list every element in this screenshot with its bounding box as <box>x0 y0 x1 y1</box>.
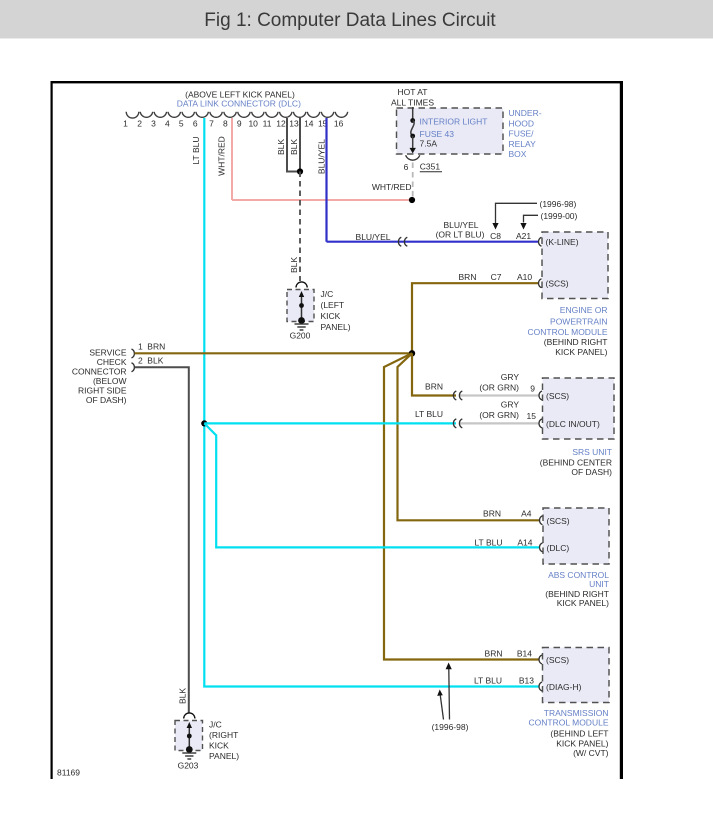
J/C G203 internal arrow and dots <box>188 728 190 750</box>
svg-text:HOOD: HOOD <box>509 118 535 128</box>
svg-text:LT BLU: LT BLU <box>191 136 201 164</box>
svg-text:A4: A4 <box>521 509 532 519</box>
svg-text:C8: C8 <box>490 231 501 241</box>
label ENGINE OR POWERTRAIN CONTROL MODULE <box>528 305 608 357</box>
svg-text:WHT/RED: WHT/RED <box>372 182 412 192</box>
label J/C (RIGHT KICK PANEL) <box>209 720 239 762</box>
service check connector pin 2 arc <box>132 363 135 372</box>
ground G203 symbol <box>182 752 196 754</box>
svg-text:GRY: GRY <box>501 372 520 382</box>
junction node WHT/RED / C351 <box>409 197 415 203</box>
svg-text:ENGINE OR: ENGINE OR <box>560 305 608 315</box>
header bar <box>0 0 713 39</box>
pin arc SRS SCS <box>539 391 542 400</box>
wire BRN from ECM (SCS) <box>412 283 539 352</box>
svg-text:4: 4 <box>165 118 170 128</box>
J/C G200 internal arrow and dots <box>301 297 303 321</box>
svg-text:J/C: J/C <box>209 720 222 730</box>
svg-text:(LEFT: (LEFT <box>321 300 345 310</box>
label UNDER-HOOD FUSE/RELAY BOX <box>509 108 542 159</box>
svg-text:LT BLU: LT BLU <box>415 409 443 419</box>
svg-text:C351: C351 <box>420 162 441 172</box>
svg-text:(1999-00): (1999-00) <box>541 211 578 221</box>
svg-text:(SCS): (SCS) <box>546 279 569 289</box>
svg-text:DATA LINK CONNECTOR (DLC): DATA LINK CONNECTOR (DLC) <box>177 99 301 109</box>
svg-text:5: 5 <box>179 118 184 128</box>
svg-text:HOT AT: HOT AT <box>398 87 428 97</box>
svg-text:ALL TIMES: ALL TIMES <box>391 98 434 108</box>
junction node BLK pins 12+13 <box>297 168 303 174</box>
inline connector BRN/GRY <box>453 391 462 400</box>
svg-text:B13: B13 <box>519 675 534 685</box>
pin arc SCS <box>539 279 542 288</box>
svg-text:KICK: KICK <box>209 741 229 751</box>
svg-text:BLK: BLK <box>276 139 286 155</box>
svg-text:CONTROL MODULE: CONTROL MODULE <box>528 327 608 337</box>
svg-text:(SCS): (SCS) <box>546 655 569 665</box>
svg-text:G200: G200 <box>290 331 311 341</box>
svg-text:INTERIOR LIGHT: INTERIOR LIGHT <box>420 116 488 126</box>
svg-text:BRN: BRN <box>147 341 165 351</box>
inline connector LT BLU/GRY <box>453 419 462 428</box>
wire WHT/RED vertical from DLC pin 9 <box>231 118 233 200</box>
ABS control unit box (dashed) <box>543 508 609 564</box>
wire GRY to SRS (DLC IN/OUT) <box>459 422 539 424</box>
svg-text:7: 7 <box>209 118 214 128</box>
wire WHT/RED horizontal to C351 junction <box>232 199 412 201</box>
pin arc ABS DLC <box>540 543 543 552</box>
svg-text:BLK: BLK <box>177 688 187 704</box>
svg-text:BLU/YEL: BLU/YEL <box>316 139 326 174</box>
svg-text:(BEHIND CENTER: (BEHIND CENTER <box>540 457 612 467</box>
svg-text:2: 2 <box>138 355 143 365</box>
svg-text:15: 15 <box>527 411 537 421</box>
svg-text:SERVICE: SERVICE <box>89 347 126 357</box>
label ABS CONTROL UNIT (BEHIND RIGHT KICK PANEL) <box>545 570 609 608</box>
svg-text:9: 9 <box>530 384 535 394</box>
svg-text:6: 6 <box>404 162 409 172</box>
J/C G200 box (dashed) <box>287 290 314 322</box>
wire LT BLU horizontal to TCM (DIAG-H) <box>203 685 539 687</box>
label SRS UNIT (BEHIND CENTER OF DASH) <box>540 447 612 477</box>
svg-text:13: 13 <box>289 118 299 128</box>
svg-text:BRN: BRN <box>483 509 501 519</box>
svg-text:SRS UNIT: SRS UNIT <box>572 447 612 457</box>
svg-text:OF DASH): OF DASH) <box>86 395 127 405</box>
svg-text:BLK: BLK <box>289 257 299 273</box>
pin arc K-LINE <box>539 237 542 246</box>
svg-text:2: 2 <box>137 118 142 128</box>
svg-text:(1996-98): (1996-98) <box>432 722 469 732</box>
svg-text:RELAY: RELAY <box>509 139 537 149</box>
svg-text:KICK PANEL): KICK PANEL) <box>556 738 608 748</box>
svg-text:(RIGHT: (RIGHT <box>209 730 238 740</box>
svg-text:LT BLU: LT BLU <box>474 537 502 547</box>
wire LT BLU vertical from DLC pin 7 <box>203 118 205 687</box>
svg-text:(SCS): (SCS) <box>546 391 569 401</box>
svg-text:14: 14 <box>304 118 314 128</box>
pin arc TCM DIAG-H <box>539 682 542 691</box>
wire dashed gray from C351 to junction <box>412 163 414 200</box>
label J/C (LEFT KICK PANEL) <box>321 289 351 332</box>
svg-text:G203: G203 <box>178 761 199 771</box>
wire BRN splice down to SRS (SCS) row <box>412 353 456 395</box>
J/C G203 terminal arc <box>184 713 195 719</box>
svg-text:9: 9 <box>237 118 242 128</box>
diagram frame right border <box>620 81 623 779</box>
svg-text:BRN: BRN <box>459 272 477 282</box>
svg-text:(W/ CVT): (W/ CVT) <box>573 748 609 758</box>
svg-text:Fig 1: Computer Data Lines Cir: Fig 1: Computer Data Lines Circuit <box>204 10 496 31</box>
J/C G203 box (dashed) <box>175 721 203 751</box>
svg-text:10: 10 <box>248 118 258 128</box>
svg-text:LT BLU: LT BLU <box>474 675 502 685</box>
svg-text:16: 16 <box>334 118 344 128</box>
svg-text:(1996-98): (1996-98) <box>540 199 577 209</box>
connector DLC terminal arcs (16 scallops) <box>126 112 348 118</box>
svg-text:1: 1 <box>138 341 143 351</box>
pin arc SRS DLC IN/OUT <box>539 419 542 428</box>
svg-text:A10: A10 <box>517 272 532 282</box>
svg-text:A14: A14 <box>517 537 532 547</box>
svg-text:FUSE 43: FUSE 43 <box>420 129 455 139</box>
wire LT BLU diagonal branch to ABS <box>204 423 539 547</box>
svg-text:C7: C7 <box>491 272 502 282</box>
diagram frame left border <box>51 81 53 779</box>
transmission control module box (dashed) <box>543 648 610 703</box>
wire BLU/YEL vertical from DLC pin 15 <box>325 118 327 242</box>
svg-text:A21: A21 <box>516 231 531 241</box>
wire into fuse from top <box>412 107 414 121</box>
wire LT BLU tee to SRS (DLC IN/OUT) <box>204 422 456 424</box>
pin arc ABS SCS <box>540 516 543 525</box>
svg-text:PANEL): PANEL) <box>321 322 351 332</box>
svg-text:KICK: KICK <box>321 311 341 321</box>
callout (1999-00) with arrow to A21 <box>524 215 539 222</box>
svg-text:(OR GRN): (OR GRN) <box>479 410 519 420</box>
callout (1996-98) with arrow to C8 <box>496 203 538 223</box>
svg-text:FUSE/: FUSE/ <box>509 129 535 139</box>
svg-text:(BEHIND RIGHT: (BEHIND RIGHT <box>544 337 608 347</box>
svg-text:(K-LINE): (K-LINE) <box>546 237 579 247</box>
svg-text:KICK PANEL): KICK PANEL) <box>557 598 609 608</box>
wire BLK from DLC pin 12 <box>287 118 300 172</box>
wire BRN splice diagonal to TCM vertical <box>384 353 539 659</box>
svg-text:BRN: BRN <box>425 382 443 392</box>
diagram frame top border <box>51 81 623 83</box>
svg-text:BLU/YEL: BLU/YEL <box>356 232 391 242</box>
svg-text:POWERTRAIN: POWERTRAIN <box>550 317 607 327</box>
svg-text:6: 6 <box>193 118 198 128</box>
svg-text:3: 3 <box>151 118 156 128</box>
svg-text:CONNECTOR: CONNECTOR <box>72 367 127 377</box>
underhood fuse/relay box (dashed) <box>397 108 504 154</box>
pin arc TCM SCS <box>539 655 542 664</box>
ECM module box (dashed) <box>542 232 608 299</box>
svg-text:7.5A: 7.5A <box>420 139 438 149</box>
wire BRN splice diagonal to ABS vertical <box>398 353 540 520</box>
svg-text:12: 12 <box>276 118 286 128</box>
svg-text:OF DASH): OF DASH) <box>571 467 612 477</box>
inline connector on BLU/YEL wire <box>398 237 407 246</box>
svg-text:J/C: J/C <box>321 289 334 299</box>
svg-text:UNIT: UNIT <box>589 579 609 589</box>
label TRANSMISSION CONTROL MODULE (BEHIND LEFT KICK PANEL) (W/ CVT) <box>529 708 609 758</box>
svg-text:B14: B14 <box>517 649 532 659</box>
SRS unit box (dashed) <box>543 378 615 439</box>
svg-text:(BELOW: (BELOW <box>93 376 127 386</box>
svg-text:WHT/RED: WHT/RED <box>217 136 227 176</box>
svg-text:CHECK: CHECK <box>97 357 127 367</box>
wire BLK dashed down to J/C G200 <box>299 172 301 282</box>
svg-text:BLK: BLK <box>289 139 299 155</box>
svg-text:TRANSMISSION: TRANSMISSION <box>544 708 609 718</box>
svg-text:(OR GRN): (OR GRN) <box>479 383 519 393</box>
svg-text:81169: 81169 <box>57 768 80 778</box>
J/C G200 terminal arc <box>296 282 307 288</box>
wire GRY to SRS (SCS) <box>459 394 539 396</box>
connector C351 terminal arc <box>406 155 420 160</box>
ground G200 symbol <box>295 323 309 325</box>
svg-text:BLK: BLK <box>147 355 163 365</box>
wire BRN service check to junction <box>135 352 413 354</box>
svg-text:KICK PANEL): KICK PANEL) <box>555 347 607 357</box>
svg-text:11: 11 <box>263 118 272 128</box>
svg-text:BRN: BRN <box>485 649 503 659</box>
svg-text:(DIAG-H): (DIAG-H) <box>546 682 582 692</box>
svg-text:(DLC IN/OUT): (DLC IN/OUT) <box>546 419 600 429</box>
wire BLK service check to G203 <box>135 367 189 713</box>
svg-text:(BEHIND LEFT: (BEHIND LEFT <box>550 728 608 738</box>
svg-text:(SCS): (SCS) <box>547 516 570 526</box>
wire BLU/YEL horizontal to ECM (K-LINE) <box>327 241 540 243</box>
service check connector labels <box>72 347 127 405</box>
svg-text:8: 8 <box>223 118 228 128</box>
svg-text:PANEL): PANEL) <box>209 751 239 761</box>
svg-text:(OR LT BLU): (OR LT BLU) <box>436 229 485 239</box>
svg-text:(DLC): (DLC) <box>547 543 570 553</box>
svg-text:UNDER-: UNDER- <box>509 108 542 118</box>
fuse F43 element <box>410 118 415 123</box>
junction node LT BLU tee <box>201 420 207 426</box>
junction node BRN 5-way splice <box>409 350 415 356</box>
wire BLK from DLC pin 13 <box>299 118 301 172</box>
svg-text:CONTROL MODULE: CONTROL MODULE <box>529 718 609 728</box>
svg-text:1: 1 <box>123 118 128 128</box>
service check connector pin 1 arc <box>132 349 135 358</box>
DLC pin numbers 1-16 <box>123 118 343 128</box>
svg-text:BOX: BOX <box>509 149 527 159</box>
svg-text:GRY: GRY <box>501 399 520 409</box>
fuse output arrow to box edge <box>412 136 414 149</box>
